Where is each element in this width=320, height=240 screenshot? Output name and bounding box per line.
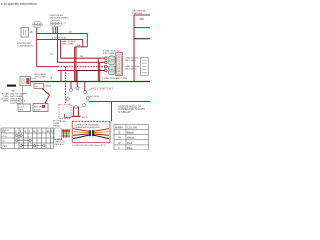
svg-text:30A: 30A [140, 17, 145, 21]
svg-text:MARK: MARK [115, 126, 123, 130]
svg-text:A21 (B/W): A21 (B/W) [90, 95, 100, 98]
svg-text:KEY SWITCH?: KEY SWITCH? [93, 87, 114, 91]
svg-text:COLOR: COLOR [127, 126, 137, 130]
svg-text:O CIRCUIT: O CIRCUIT [119, 111, 132, 114]
svg-text:KEY SW: KEY SW [34, 107, 42, 109]
svg-text:4/W CONN (GRAY): 4/W CONN (GRAY) [50, 17, 69, 20]
svg-text:4/W CONN: 4/W CONN [35, 76, 46, 78]
svg-text:VIEWED FROM WIRE SIDE: VIEWED FROM WIRE SIDE [75, 127, 101, 129]
svg-text:A21 ST: A21 ST [82, 116, 90, 119]
svg-text:REPLACE: REPLACE [55, 143, 65, 146]
svg-text:A2: A2 [47, 130, 49, 133]
svg-text:Red: Red [127, 141, 133, 145]
svg-text:Blue: Blue [127, 146, 133, 150]
svg-text:4/W CONN: 4/W CONN [116, 78, 127, 80]
svg-text:(LOCK): (LOCK) [34, 110, 41, 112]
svg-text:15A: 15A [77, 44, 81, 47]
svg-text:+B: +B [30, 31, 33, 34]
svg-text:4 IGNITION A1: 4 IGNITION A1 [52, 37, 67, 40]
svg-text:CONN (BLACK): CONN (BLACK) [17, 45, 33, 48]
svg-text:LOCK: LOCK [19, 107, 25, 109]
svg-text:4 IGNITION SW CONN (Seen: SC7): 4 IGNITION SW CONN (Seen: SC7) [72, 145, 106, 147]
svg-text:A1: A1 [33, 130, 35, 133]
svg-text:4/W CONN: 4/W CONN [62, 44, 73, 46]
svg-text:START: START [2, 145, 9, 148]
svg-text:(VIEW): (VIEW) [53, 126, 60, 128]
svg-text:Black: Black [127, 131, 134, 135]
svg-text:R: R [119, 141, 121, 145]
svg-text:4/W CONN: 4/W CONN [103, 53, 114, 55]
svg-text:LOCK: LOCK [2, 136, 8, 138]
svg-text:W: W [119, 136, 122, 140]
svg-text:e to specific information.: e to specific information. [1, 2, 38, 6]
svg-text:GND: GND [11, 91, 16, 93]
svg-text:4 IGN: 4 IGN [60, 121, 66, 123]
svg-text:White: White [127, 136, 135, 140]
svg-text:WIRE: WIRE [3, 101, 9, 103]
svg-text:CRANK: CRANK [44, 84, 52, 87]
svg-text:B: B [119, 131, 121, 135]
